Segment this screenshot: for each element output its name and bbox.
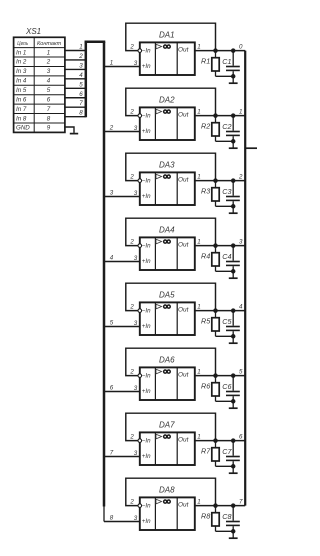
group bus: top segment <box>85 41 106 44</box>
svg-text:4: 4 <box>239 303 243 310</box>
svg-text:In 3: In 3 <box>16 68 27 75</box>
svg-text:Out: Out <box>178 176 190 183</box>
svg-text:DA8: DA8 <box>159 486 175 495</box>
svg-text:8: 8 <box>110 515 114 522</box>
net label 5 (output bus entry) <box>239 368 243 375</box>
ground (channel 7) <box>229 466 238 473</box>
feedback wire DA1 (Out to -In) <box>126 23 216 50</box>
svg-text:−In: −In <box>142 438 151 445</box>
wire R5 bottom to C5 bottom <box>216 335 234 337</box>
op-amp DA5 body <box>140 302 195 335</box>
svg-text:1: 1 <box>197 43 200 50</box>
R3 value label <box>201 187 210 196</box>
svg-text:7: 7 <box>79 100 83 107</box>
op-amp DA4 designator <box>159 226 175 235</box>
ground (channel 2) <box>229 141 238 148</box>
ground (channel 4) <box>229 271 238 278</box>
resistor R6 <box>212 376 219 402</box>
net label 6 (bus exit) <box>110 385 114 392</box>
capacitor C1 <box>226 51 240 77</box>
svg-text:Out: Out <box>178 501 190 508</box>
wire XS1 contact 3 to group bus <box>65 68 86 70</box>
wire DA5 output to bus <box>195 310 245 312</box>
svg-text:−In: −In <box>142 503 151 510</box>
net label 5 (bus exit) <box>110 320 114 327</box>
DA7 amplifier symbol (triangle + infinity) <box>156 434 170 439</box>
feedback wire DA5 (Out to -In) <box>126 283 216 310</box>
net label 3 (bus entry) <box>79 62 83 69</box>
junction: C6 top <box>231 373 236 378</box>
svg-text:−In: −In <box>142 48 151 55</box>
op-amp DA4 body <box>140 237 195 270</box>
svg-text:+In: +In <box>142 388 151 395</box>
svg-text:In 1: In 1 <box>16 49 26 56</box>
svg-text:2: 2 <box>129 109 134 116</box>
C2 value label <box>222 122 231 131</box>
svg-text:8: 8 <box>47 115 51 122</box>
DA8 pin 2 label <box>129 499 134 506</box>
svg-text:7: 7 <box>110 450 114 457</box>
R1 value label <box>201 57 210 66</box>
svg-text:2: 2 <box>129 44 134 51</box>
svg-text:DA1: DA1 <box>159 31 175 40</box>
svg-text:4: 4 <box>47 78 51 85</box>
feedback wire DA4 (Out to -In) <box>126 218 216 245</box>
svg-text:R7: R7 <box>201 447 211 456</box>
XS1 row In 6 / contact 6 <box>16 96 51 103</box>
op-amp DA8 body <box>140 497 195 530</box>
net label 7 (output bus entry) <box>239 498 243 505</box>
DA3 pin 1 label <box>197 173 200 180</box>
junction: R3 top <box>213 178 218 183</box>
capacitor C4 <box>226 246 240 272</box>
svg-text:4: 4 <box>79 72 83 79</box>
DA2 inverting input bubble <box>138 114 142 118</box>
DA5 pin 1 label <box>197 303 200 310</box>
svg-text:R4: R4 <box>201 252 210 261</box>
svg-text:C5: C5 <box>222 317 232 326</box>
junction: C6 bottom <box>231 399 236 404</box>
DA7 pin 3 label <box>134 450 138 457</box>
DA4 amplifier symbol (triangle + infinity) <box>156 239 170 244</box>
XS1 row In 7 / contact 7 <box>16 106 51 113</box>
wire R6 bottom to C6 bottom <box>216 400 234 402</box>
wire group bus to DA2 +In (pin 3) <box>104 131 140 133</box>
svg-text:Out: Out <box>178 436 190 443</box>
svg-text:In 7: In 7 <box>16 106 27 113</box>
net label 2 (bus entry) <box>78 53 83 60</box>
svg-text:R8: R8 <box>201 512 210 521</box>
connector XS1 designator label <box>25 27 41 36</box>
svg-text:2: 2 <box>46 59 51 66</box>
svg-text:Out: Out <box>178 46 190 53</box>
wire group bus to DA8 +In (pin 3) <box>104 521 140 523</box>
DA3 inverting input bubble <box>138 179 142 183</box>
junction: R7 top <box>213 438 218 443</box>
wire group bus to DA5 +In (pin 3) <box>104 326 140 328</box>
op-amp DA5 designator <box>159 291 175 300</box>
DA3 port labels <box>142 176 190 200</box>
DA5 pin 2 label <box>129 304 134 311</box>
DA8 port labels <box>142 501 190 525</box>
svg-text:In 6: In 6 <box>16 96 27 103</box>
op-amp DA7 designator <box>159 421 175 430</box>
svg-text:DA6: DA6 <box>159 356 175 365</box>
svg-text:R1: R1 <box>201 57 210 66</box>
svg-text:+In: +In <box>142 258 151 265</box>
svg-text:9: 9 <box>47 125 51 132</box>
C6 value label <box>222 382 231 391</box>
svg-text:1: 1 <box>197 173 200 180</box>
svg-text:2: 2 <box>129 369 134 376</box>
XS1 row GND / contact 9 <box>16 125 51 132</box>
junction: C1 top <box>231 48 236 53</box>
feedback wire DA2 (Out to -In) <box>126 88 216 115</box>
svg-text:1: 1 <box>47 49 50 56</box>
DA7 pin 1 label <box>197 433 200 440</box>
wire XS1 contact 6 to group bus <box>65 97 86 99</box>
DA7 pin 2 label <box>129 434 134 441</box>
junction: R6 top <box>213 373 218 378</box>
resistor R4 <box>212 246 219 272</box>
XS1 column headers <box>17 41 61 47</box>
capacitor C5 <box>226 311 240 337</box>
DA3 pin 2 label <box>129 174 134 181</box>
op-amp DA2 body <box>140 107 195 140</box>
svg-text:Out: Out <box>178 111 190 118</box>
resistor R7 <box>212 441 219 467</box>
capacitor C3 <box>226 181 240 207</box>
group bus: output exit to sheet edge <box>245 147 257 149</box>
resistor R5 <box>212 311 219 337</box>
svg-text:Out: Out <box>178 241 190 248</box>
DA4 inverting input bubble <box>138 244 142 248</box>
group bus: distributor segment (thick) <box>103 42 106 507</box>
DA6 pin 2 label <box>129 369 134 376</box>
DA8 pin 3 label <box>134 515 138 522</box>
junction: C7 bottom <box>231 464 236 469</box>
net label 7 (bus entry) <box>79 100 83 107</box>
DA8 amplifier symbol (triangle + infinity) <box>156 499 170 504</box>
svg-text:1: 1 <box>197 108 200 115</box>
DA3 amplifier symbol (triangle + infinity) <box>156 174 170 179</box>
junction: C5 bottom <box>231 334 236 339</box>
svg-text:DA5: DA5 <box>159 291 175 300</box>
net label 5 (bus entry) <box>79 81 83 88</box>
R6 value label <box>201 382 210 391</box>
svg-text:+In: +In <box>142 323 151 330</box>
svg-text:5: 5 <box>79 81 83 88</box>
DA1 inverting input bubble <box>138 49 142 53</box>
DA6 port labels <box>142 371 190 395</box>
svg-text:Контакт: Контакт <box>37 41 61 47</box>
svg-text:2: 2 <box>129 174 134 181</box>
ground (channel 8) <box>229 531 238 538</box>
junction: C2 top <box>231 113 236 118</box>
DA6 amplifier symbol (triangle + infinity) <box>156 369 170 374</box>
DA1 port labels <box>142 46 190 70</box>
R7 value label <box>201 447 211 456</box>
junction: C5 top <box>231 308 236 313</box>
svg-text:+In: +In <box>142 518 151 525</box>
net label 4 (bus exit) <box>110 255 114 262</box>
DA2 port labels <box>142 111 190 135</box>
svg-text:2: 2 <box>109 125 114 132</box>
svg-text:7: 7 <box>239 498 243 505</box>
DA6 pin 3 label <box>134 385 138 392</box>
svg-text:C1: C1 <box>222 57 231 66</box>
DA5 pin 3 label <box>134 320 138 327</box>
svg-text:C8: C8 <box>222 512 231 521</box>
C1 value label <box>222 57 231 66</box>
svg-text:1: 1 <box>110 60 113 67</box>
net label 3 (bus exit) <box>110 190 114 197</box>
svg-text:4: 4 <box>110 255 114 262</box>
svg-text:R6: R6 <box>201 382 210 391</box>
svg-text:8: 8 <box>79 110 83 117</box>
svg-text:DA3: DA3 <box>159 161 175 170</box>
op-amp DA2 designator <box>159 96 175 105</box>
DA5 port labels <box>142 306 190 330</box>
wire R2 bottom to C2 bottom <box>216 140 234 142</box>
svg-text:C2: C2 <box>222 122 231 131</box>
net label 1 (bus exit) <box>110 60 113 67</box>
net label 2 (output bus entry) <box>238 173 243 180</box>
svg-text:+In: +In <box>142 193 151 200</box>
svg-text:R2: R2 <box>201 122 210 131</box>
svg-text:3: 3 <box>239 238 243 245</box>
C5 value label <box>222 317 232 326</box>
net label 2 (bus exit) <box>109 125 114 132</box>
svg-text:Цепь: Цепь <box>17 41 28 47</box>
XS1 row In 1 / contact 1 <box>16 49 50 56</box>
svg-text:Out: Out <box>178 306 190 313</box>
wire R7 bottom to C7 bottom <box>216 465 234 467</box>
svg-text:GND: GND <box>16 125 30 132</box>
op-amp DA3 body <box>140 172 195 205</box>
C3 value label <box>222 187 231 196</box>
wire R4 bottom to C4 bottom <box>216 270 234 272</box>
DA4 port labels <box>142 241 190 265</box>
ground (channel 3) <box>229 206 238 213</box>
feedback wire DA8 (Out to -In) <box>126 478 216 505</box>
wire DA1 output to bus <box>195 50 245 52</box>
op-amp DA3 designator <box>159 161 175 170</box>
net label 7 (bus exit) <box>110 450 114 457</box>
DA1 pin 1 label <box>197 43 200 50</box>
junction: C4 bottom <box>231 269 236 274</box>
wire XS1 contact 2 to group bus <box>65 59 86 61</box>
R4 value label <box>201 252 210 261</box>
svg-text:In 4: In 4 <box>16 78 27 85</box>
wire DA3 output to bus <box>195 180 245 182</box>
svg-text:−In: −In <box>142 308 151 315</box>
wire R8 bottom to C8 bottom <box>216 530 234 532</box>
wire XS1 contact 7 to group bus <box>65 106 86 108</box>
junction: R1 top <box>213 48 218 53</box>
svg-text:In 2: In 2 <box>16 59 27 66</box>
svg-text:In 5: In 5 <box>16 87 27 94</box>
XS1 row In 3 / contact 3 <box>16 68 51 75</box>
svg-text:−In: −In <box>142 178 151 185</box>
XS1 row In 5 / contact 5 <box>16 87 51 94</box>
R5 value label <box>201 317 211 326</box>
resistor R3 <box>212 181 219 207</box>
capacitor C2 <box>226 116 240 142</box>
svg-text:1: 1 <box>197 303 200 310</box>
svg-text:+In: +In <box>142 453 151 460</box>
junction: C7 top <box>231 438 236 443</box>
junction: R4 top <box>213 243 218 248</box>
junction: C3 top <box>231 178 236 183</box>
svg-text:−In: −In <box>142 373 151 380</box>
DA5 inverting input bubble <box>138 309 142 313</box>
wire DA2 output to bus <box>195 115 245 117</box>
junction: R5 top <box>213 308 218 313</box>
svg-text:1: 1 <box>197 433 200 440</box>
wire XS1 contact 5 to group bus <box>65 87 86 89</box>
XS1 row In 2 / contact 2 <box>16 59 51 66</box>
svg-text:6: 6 <box>47 96 51 103</box>
DA6 inverting input bubble <box>138 374 142 378</box>
R8 value label <box>201 512 210 521</box>
ground (channel 5) <box>229 336 238 343</box>
wire group bus to DA7 +In (pin 3) <box>104 456 140 458</box>
op-amp DA8 designator <box>159 486 175 495</box>
DA2 pin 2 label <box>129 109 134 116</box>
DA1 amplifier symbol (triangle + infinity) <box>156 44 170 49</box>
svg-text:In 8: In 8 <box>16 115 27 122</box>
svg-text:1: 1 <box>197 368 200 375</box>
svg-text:6: 6 <box>110 385 114 392</box>
junction: C2 bottom <box>231 139 236 144</box>
wire R1 bottom to C1 bottom <box>216 75 234 77</box>
svg-text:R5: R5 <box>201 317 211 326</box>
DA8 inverting input bubble <box>138 504 142 508</box>
capacitor C6 <box>226 376 240 402</box>
svg-text:C3: C3 <box>222 187 231 196</box>
R2 value label <box>201 122 210 131</box>
DA6 pin 1 label <box>197 368 200 375</box>
DA8 pin 1 label <box>197 498 200 505</box>
svg-text:2: 2 <box>78 53 83 60</box>
op-amp DA6 designator <box>159 356 175 365</box>
DA1 pin 2 label <box>129 44 134 51</box>
net label 0 (output bus entry) <box>239 43 243 50</box>
group bus: output bus (right) <box>244 51 246 506</box>
svg-text:2: 2 <box>129 499 134 506</box>
svg-text:R3: R3 <box>201 187 210 196</box>
connector XS1 table <box>14 37 65 132</box>
op-amp DA1 body <box>140 42 195 75</box>
DA7 port labels <box>142 436 190 460</box>
DA7 inverting input bubble <box>138 439 142 443</box>
net label 6 (output bus entry) <box>239 433 243 440</box>
svg-text:DA2: DA2 <box>159 96 175 105</box>
net label 3 (output bus entry) <box>239 238 243 245</box>
DA2 pin 3 label <box>134 125 138 132</box>
wire R3 bottom to C3 bottom <box>216 205 234 207</box>
svg-text:C6: C6 <box>222 382 231 391</box>
svg-text:−In: −In <box>142 113 151 120</box>
C7 value label <box>222 447 232 456</box>
DA1 pin 3 label <box>134 60 138 67</box>
op-amp DA6 body <box>140 367 195 400</box>
wire group bus to DA6 +In (pin 3) <box>104 391 140 393</box>
DA4 pin 2 label <box>129 239 134 246</box>
svg-text:2: 2 <box>129 304 134 311</box>
wire group bus to DA3 +In (pin 3) <box>104 196 140 198</box>
svg-text:6: 6 <box>239 433 243 440</box>
svg-text:DA4: DA4 <box>159 226 175 235</box>
svg-text:3: 3 <box>79 62 83 69</box>
junction: C3 bottom <box>231 204 236 209</box>
capacitor C8 <box>226 506 240 532</box>
DA4 pin 3 label <box>134 255 138 262</box>
svg-text:0: 0 <box>239 43 243 50</box>
DA5 amplifier symbol (triangle + infinity) <box>156 304 170 309</box>
wire DA4 output to bus <box>195 245 245 247</box>
junction: C4 top <box>231 243 236 248</box>
svg-text:2: 2 <box>129 239 134 246</box>
resistor R1 <box>212 51 219 77</box>
resistor R2 <box>212 116 219 142</box>
feedback wire DA3 (Out to -In) <box>126 153 216 180</box>
svg-text:1: 1 <box>197 238 200 245</box>
wire DA8 output to bus <box>195 505 245 507</box>
junction: R2 top <box>213 113 218 118</box>
DA2 pin 1 label <box>197 108 200 115</box>
group bus: distributor tail to DA8 input <box>103 507 105 522</box>
wire XS1 contact 1 to group bus <box>65 50 86 52</box>
C4 value label <box>222 252 231 261</box>
svg-text:3: 3 <box>47 68 51 75</box>
svg-text:C4: C4 <box>222 252 231 261</box>
wire XS1 contact 9 (GND) <box>65 127 74 133</box>
DA2 amplifier symbol (triangle + infinity) <box>156 109 170 114</box>
wire group bus to DA4 +In (pin 3) <box>104 261 140 263</box>
svg-text:7: 7 <box>47 106 51 113</box>
DA4 pin 1 label <box>197 238 200 245</box>
net label 4 (output bus entry) <box>239 303 243 310</box>
svg-text:5: 5 <box>47 87 51 94</box>
XS1 row In 4 / contact 4 <box>16 78 51 85</box>
svg-text:2: 2 <box>238 173 243 180</box>
junction: R8 top <box>213 503 218 508</box>
svg-text:1: 1 <box>79 44 82 51</box>
svg-text:2: 2 <box>129 434 134 441</box>
C8 value label <box>222 512 231 521</box>
ground (channel 1) <box>229 76 238 83</box>
svg-text:DA7: DA7 <box>159 421 175 430</box>
net label 6 (bus entry) <box>79 91 83 98</box>
svg-text:5: 5 <box>239 368 243 375</box>
XS1 row In 8 / contact 8 <box>16 115 51 122</box>
svg-text:6: 6 <box>79 91 83 98</box>
op-amp DA7 body <box>140 432 195 465</box>
svg-text:+In: +In <box>142 128 151 135</box>
wire XS1 contact 4 to group bus <box>65 78 86 80</box>
svg-text:+In: +In <box>142 63 151 70</box>
feedback wire DA6 (Out to -In) <box>126 348 216 375</box>
svg-text:C7: C7 <box>222 447 232 456</box>
junction: C1 bottom <box>231 74 236 79</box>
svg-text:Out: Out <box>178 371 190 378</box>
net label 1 (bus entry) <box>79 44 82 51</box>
junction: C8 top <box>231 503 236 508</box>
net label 8 (bus exit) <box>110 515 114 522</box>
svg-text:−In: −In <box>142 243 151 250</box>
